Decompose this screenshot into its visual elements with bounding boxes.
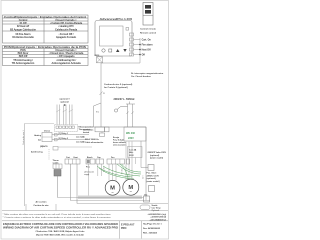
svg-text:[2] Relay 2: [2] Relay 2 bbox=[59, 138, 68, 140]
wires to bus bbox=[101, 38, 140, 63]
svg-text:Heat: Heat bbox=[74, 156, 78, 159]
svg-text:E PRO AU7: E PRO AU7 bbox=[121, 223, 135, 226]
border frame bbox=[1, 1, 169, 240]
svg-text:Si: interruptor magnetotérmico: Si: interruptor magnetotérmico bbox=[131, 72, 164, 75]
svg-text:Doc. AF80000003: Doc. AF80000003 bbox=[143, 227, 161, 230]
svg-text:Cable alimentación: Cable alimentación bbox=[85, 141, 104, 144]
title block bbox=[2, 220, 168, 222]
wire pair split N/L bbox=[94, 103, 102, 127]
svg-text:Fire alarm: Fire alarm bbox=[142, 44, 153, 46]
svg-text:R03 - 22/03/24: R03 - 22/03/24 bbox=[143, 231, 158, 234]
svg-text:02 Heat off: 02 Heat off bbox=[17, 24, 29, 28]
svg-text:optional: optional bbox=[60, 101, 69, 104]
svg-text:WE 236: WE 236 bbox=[126, 132, 136, 135]
relay rows bbox=[52, 134, 89, 136]
svg-text:N L: N L bbox=[96, 112, 99, 114]
svg-text:230V: 230V bbox=[128, 137, 134, 140]
svg-text:alimentación: alimentación bbox=[84, 171, 94, 174]
svg-text:Cortina de aire 2 (opcional): Cortina de aire 2 (opcional) bbox=[104, 83, 132, 86]
right-side terminals of unit bbox=[130, 33, 134, 56]
fuse component bbox=[100, 133, 105, 136]
svg-text:[1] Relay 1: [1] Relay 1 bbox=[59, 133, 68, 135]
table T2 POS/Optional inputs bbox=[3, 46, 89, 66]
svg-text:supply: supply bbox=[84, 174, 89, 176]
svg-text:Antifreezing: Antifreezing bbox=[31, 150, 43, 153]
svg-text:+34 938612500 t (r/p): +34 938612500 t (r/p) bbox=[147, 213, 166, 216]
svg-text:Máx.: Máx. bbox=[129, 152, 134, 154]
svg-text:opcional /: opcional / bbox=[59, 99, 70, 101]
input cells under edge bbox=[95, 127, 105, 132]
svg-text:B2 Apagar Calefacción: B2 Apagar Calefacción bbox=[10, 28, 36, 32]
svg-text:* Cuenta otras cortinas la ali: * Cuenta otras cortinas la alim indiv or… bbox=[3, 216, 111, 219]
cable slash marker bbox=[100, 92, 103, 96]
dashed terminal box bbox=[55, 125, 78, 132]
svg-text:BN BU: BN BU bbox=[122, 168, 124, 174]
svg-text:low: low bbox=[38, 140, 42, 142]
aux contact box bbox=[53, 147, 58, 151]
svg-text:(optional): (optional) bbox=[150, 154, 159, 157]
svg-text:(water model): (water model) bbox=[150, 157, 163, 160]
bottom nested wires bbox=[58, 198, 169, 204]
svg-text:Remote control: Remote control bbox=[140, 31, 156, 34]
svg-text:PRO: PRO bbox=[121, 227, 126, 230]
svg-text:ON/OFF Valve 230V: ON/OFF Valve 230V bbox=[148, 152, 167, 154]
motor M2 bbox=[123, 179, 139, 195]
display bbox=[100, 26, 124, 46]
svg-text:03 Fire Alarm: 03 Fire Alarm bbox=[15, 32, 31, 36]
svg-text:* Máx cortina de años con cone: * Máx cortina de años con conexión b en … bbox=[3, 213, 112, 216]
wire fuse to cell bbox=[135, 158, 137, 165]
svg-text:C/Industrias 7/08 / B401 203E,: C/Industrias 7/08 / B401 203E, Bàlpira A… bbox=[35, 230, 85, 233]
socket panel top right bbox=[143, 3, 153, 26]
buttons bbox=[102, 49, 105, 52]
WE terminal box bbox=[124, 127, 146, 141]
svg-text:04 Alarma Incendio: 04 Alarma Incendio bbox=[12, 35, 34, 39]
svg-text:(M)ACS: (M)ACS bbox=[40, 145, 48, 148]
mains drop with bracket bbox=[126, 102, 135, 128]
table T1 Control/Optional inputs bbox=[3, 15, 89, 43]
svg-text:heated: heated bbox=[83, 131, 90, 134]
svg-text:24VDC 0-10V: 24VDC 0-10V bbox=[147, 174, 160, 177]
svg-text:• Forced Off /: • Forced Off / bbox=[59, 32, 74, 36]
fuse box bbox=[128, 147, 143, 158]
board top edge bbox=[82, 126, 146, 128]
svg-text:for Curtain 2 (optional): for Curtain 2 (optional) bbox=[104, 86, 128, 89]
svg-text:Curt: Curt bbox=[66, 156, 70, 159]
svg-text:Off: Off bbox=[142, 54, 146, 56]
svg-text:max 1(2)A: max 1(2)A bbox=[76, 141, 85, 144]
svg-text:Hoj./Page Ver./of: 1: Hoj./Page Ver./of: 1 bbox=[143, 223, 163, 226]
svg-text:• Off / Apagado: • Off / Apagado bbox=[57, 54, 75, 58]
motor wires bbox=[109, 142, 132, 181]
svg-text:Pos. Valve: Pos. Valve bbox=[147, 173, 158, 175]
svg-text:+34 938712005 (f): +34 938712005 (f) bbox=[150, 216, 166, 219]
svg-text:Curt. On: Curt. On bbox=[142, 38, 152, 41]
svg-text:ESQUEMA ELECTRICO CORTINA DE A: ESQUEMA ELECTRICO CORTINA DE AIRE CON CO… bbox=[3, 223, 118, 226]
svg-text:Heat Off: Heat Off bbox=[142, 48, 151, 51]
svg-text:Apagado Forzado: Apagado Forzado bbox=[56, 35, 77, 39]
green earth wires bbox=[97, 164, 141, 180]
cable markers on sensor pairs bbox=[56, 110, 73, 113]
wire from Bomb strip down bbox=[88, 164, 90, 196]
svg-text:Air curtain: Air curtain bbox=[36, 201, 48, 204]
svg-text:Control remoto: Control remoto bbox=[140, 28, 156, 31]
svg-text:230 V 50/60 Hz: 230 V 50/60 Hz bbox=[85, 139, 99, 141]
air curtain label bbox=[25, 204, 27, 211]
main vertical wire from RJ down bbox=[100, 63, 102, 127]
svg-text:• Curtain Off, Cortina Parada: • Curtain Off, Cortina Parada bbox=[50, 21, 83, 25]
svg-text:fuse 4A: fuse 4A bbox=[129, 148, 137, 151]
board right edge bbox=[145, 127, 147, 201]
svg-text:On: Circuit breaker: On: Circuit breaker bbox=[131, 75, 151, 78]
svg-text:TB Anticongelación: TB Anticongelación bbox=[12, 61, 35, 65]
svg-text:(water model): (water model) bbox=[147, 180, 160, 183]
svg-text:• Heating Off /: • Heating Off / bbox=[58, 24, 74, 28]
left enclosure line bbox=[24, 124, 26, 207]
svg-text:Anticongelación Activada: Anticongelación Activada bbox=[51, 61, 81, 65]
led square bbox=[126, 28, 129, 31]
cable break marks bbox=[126, 112, 133, 115]
svg-text:Calefacción Parada: Calefacción Parada bbox=[55, 28, 78, 32]
svg-text:01 Off: 01 Off bbox=[20, 21, 27, 25]
wire relay aux bbox=[58, 146, 92, 148]
svg-text:Bomb: Bomb bbox=[87, 157, 93, 159]
dashed wire ACS bbox=[48, 149, 50, 160]
svg-text:max 1(2)A: max 1(2)A bbox=[76, 136, 85, 139]
svg-text:Cortina de aire 1: Cortina de aire 1 bbox=[22, 129, 25, 145]
input signal labels bbox=[142, 38, 153, 56]
svg-text:WIRING DIAGRAM OF AIR CURTAIN: WIRING DIAGRAM OF AIR CURTAIN 2SPEED CON… bbox=[3, 227, 118, 230]
svg-text:B05 Off: B05 Off bbox=[19, 54, 28, 58]
svg-text:otras acciones: otras acciones bbox=[113, 144, 126, 147]
junction dots on bus bbox=[139, 44, 141, 46]
svg-text:(optional): (optional) bbox=[147, 177, 156, 180]
svg-text:230/240 V~ 50/60Hz: 230/240 V~ 50/60Hz bbox=[114, 98, 136, 101]
gray band bbox=[78, 196, 142, 200]
single cell bbox=[127, 159, 130, 164]
switch bbox=[114, 109, 117, 112]
svg-text:230V: 230V bbox=[129, 155, 134, 157]
motor M1 bbox=[105, 180, 120, 195]
junction dot sensor wire bbox=[64, 104, 66, 106]
svg-text:2Speed 7/08 / B401 203E, Web m: 2Speed 7/08 / B401 203E, Web models & On… bbox=[36, 234, 84, 237]
svg-text:Heating: Heating bbox=[34, 134, 42, 137]
svg-text:Cortina de aire: Cortina de aire bbox=[33, 204, 49, 207]
